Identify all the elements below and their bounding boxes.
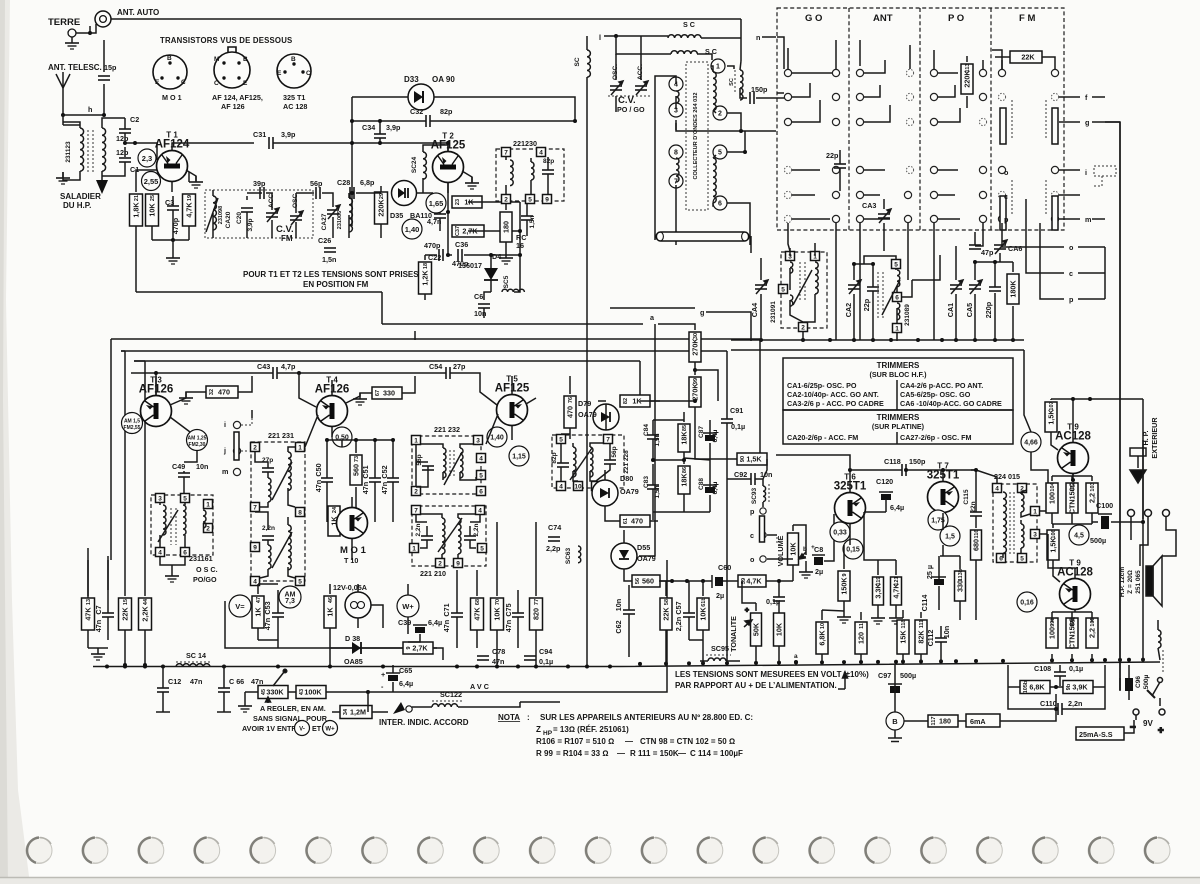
svg-text:6,4µ: 6,4µ bbox=[890, 503, 904, 512]
osc transformer 231161 dashed box bbox=[151, 495, 213, 555]
svg-text:9b: 9b bbox=[1066, 683, 1072, 690]
svg-text:R 99: R 99 bbox=[536, 749, 553, 758]
ground 231161 bbox=[165, 570, 179, 582]
svg-text:1: 1 bbox=[412, 546, 416, 553]
capacitor C84 bbox=[647, 435, 659, 439]
pin 1 bbox=[410, 544, 419, 553]
capacitor C2 bbox=[119, 129, 131, 133]
svg-text:C32: C32 bbox=[410, 107, 423, 116]
svg-text:E: E bbox=[155, 79, 160, 86]
node 4 bbox=[669, 77, 683, 91]
wire ladder bbox=[136, 172, 189, 292]
wire cd bottom bbox=[676, 185, 750, 245]
coil SC antenna bbox=[587, 50, 590, 77]
svg-text:B: B bbox=[291, 56, 296, 63]
wire battery bbox=[1136, 698, 1160, 720]
pin 5 bbox=[296, 577, 305, 586]
ground t4 shield bbox=[353, 393, 367, 405]
svg-text:C53: C53 bbox=[263, 601, 272, 614]
wire c8 left bbox=[793, 525, 806, 566]
node 1,15 bbox=[509, 446, 529, 466]
osc coil 231089 dashed bbox=[878, 272, 883, 318]
svg-text:c: c bbox=[1004, 192, 1008, 201]
svg-text:C50: C50 bbox=[314, 463, 323, 476]
svg-text:18K: 18K bbox=[680, 473, 689, 487]
detector frame bbox=[225, 331, 437, 648]
coil 231091 a2 bbox=[790, 295, 793, 306]
svg-text:61: 61 bbox=[623, 518, 629, 524]
svg-text:SC5: SC5 bbox=[503, 275, 510, 288]
svg-text:119: 119 bbox=[876, 577, 882, 586]
diode D55 bbox=[611, 543, 637, 569]
svg-text:j: j bbox=[223, 446, 226, 455]
ground t3 shield bbox=[179, 392, 193, 404]
wire mo1 bbox=[351, 497, 353, 560]
resistor 1,8K bbox=[130, 194, 143, 226]
svg-text:ANT. AUTO: ANT. AUTO bbox=[117, 8, 159, 17]
svg-text:470p: 470p bbox=[424, 241, 441, 250]
svg-text:CA5: CA5 bbox=[965, 303, 974, 317]
wire 68k 39k bbox=[1008, 665, 1105, 687]
wire t9b base bbox=[1048, 524, 1075, 582]
svg-text:56p: 56p bbox=[416, 454, 423, 465]
node 1,40 bbox=[487, 427, 507, 447]
diode D38 OA85 bbox=[352, 642, 361, 654]
pin 4 bbox=[557, 482, 566, 491]
wire c1 bbox=[102, 162, 125, 176]
svg-text:116: 116 bbox=[974, 530, 980, 539]
svg-text:—: — bbox=[617, 749, 625, 758]
wire 224015 bbox=[1021, 490, 1030, 553]
resistor 10K bbox=[697, 597, 709, 630]
svg-text:9: 9 bbox=[456, 561, 460, 568]
switch dashes bbox=[241, 418, 252, 451]
svg-text:AC 128: AC 128 bbox=[283, 102, 307, 111]
svg-text:10K: 10K bbox=[148, 203, 157, 217]
svg-text:a: a bbox=[794, 653, 798, 660]
svg-text:3,9K: 3,9K bbox=[1072, 683, 1088, 692]
svg-text:22p: 22p bbox=[862, 298, 871, 311]
ferrite rod antenna bbox=[656, 232, 749, 241]
trimmer CA3 bbox=[878, 209, 891, 223]
svg-text:6,4µ: 6,4µ bbox=[712, 429, 719, 442]
svg-text:11: 11 bbox=[859, 623, 865, 629]
svg-text:97b: 97b bbox=[1070, 617, 1076, 627]
svg-text:4,66: 4,66 bbox=[1024, 440, 1038, 447]
coil 221210 a bbox=[442, 518, 445, 554]
svg-text:1: 1 bbox=[414, 438, 418, 445]
svg-text:CA4-2/6 p-ACC. PO ANT.: CA4-2/6 p-ACC. PO ANT. bbox=[900, 381, 983, 390]
svg-text:12V-0,05A: 12V-0,05A bbox=[333, 583, 367, 592]
pin 9 bbox=[543, 195, 552, 204]
coil 221231 c bbox=[268, 545, 271, 569]
wire cd internal bbox=[676, 66, 716, 206]
pin 6 bbox=[893, 293, 902, 302]
wire d35 bbox=[356, 186, 392, 238]
svg-text:6: 6 bbox=[183, 550, 187, 557]
svg-text:47n: 47n bbox=[492, 657, 504, 666]
pin 4 bbox=[251, 577, 260, 586]
svg-text:OA79: OA79 bbox=[578, 410, 597, 419]
svg-text:C8: C8 bbox=[814, 545, 823, 554]
trim arrow 231089 bbox=[882, 280, 900, 315]
svg-text:C60: C60 bbox=[718, 563, 731, 572]
svg-text:C: C bbox=[306, 70, 311, 77]
svg-text:C: C bbox=[181, 79, 186, 86]
ground left bbox=[91, 648, 105, 660]
svg-text:2µ: 2µ bbox=[815, 567, 823, 576]
coil 221228 a bbox=[573, 447, 576, 477]
svg-text:1: 1 bbox=[1033, 509, 1037, 516]
transistor AF124 bbox=[157, 151, 188, 182]
arrow saladier bbox=[96, 180, 108, 194]
resistor 18K bbox=[678, 466, 690, 494]
capacitor C52 bbox=[387, 478, 399, 482]
resistor 470 bbox=[206, 386, 238, 398]
svg-text:102: 102 bbox=[1070, 482, 1076, 491]
node am fm t3b bbox=[187, 430, 208, 451]
trimmer CA6 bbox=[994, 240, 1007, 254]
node 5 bbox=[713, 145, 727, 159]
svg-text:V=: V= bbox=[235, 602, 245, 611]
svg-text:D55: D55 bbox=[637, 543, 650, 552]
svg-text:G O: G O bbox=[805, 13, 822, 24]
wire c31 to right bbox=[273, 142, 448, 144]
svg-text:46: 46 bbox=[328, 597, 334, 603]
svg-text:47p: 47p bbox=[981, 248, 994, 257]
svg-text:47n: 47n bbox=[442, 620, 451, 632]
svg-text:C71: C71 bbox=[442, 603, 451, 616]
coil SC top bbox=[668, 35, 701, 38]
svg-text:86: 86 bbox=[682, 467, 688, 473]
svg-text:25mA-S.S: 25mA-S.S bbox=[1079, 730, 1113, 739]
svg-text:C91: C91 bbox=[730, 406, 743, 415]
svg-text:g: g bbox=[700, 308, 704, 317]
wire volume bbox=[767, 525, 793, 581]
svg-text:SC95: SC95 bbox=[711, 644, 729, 653]
svg-text:C62: C62 bbox=[614, 620, 623, 633]
svg-text:32: 32 bbox=[209, 389, 215, 395]
core 231123 bbox=[88, 130, 93, 172]
ground ladder bbox=[166, 252, 180, 264]
pin 2 bbox=[412, 487, 421, 496]
transistor AC128 bbox=[1060, 579, 1091, 610]
resistor 10K bbox=[788, 533, 799, 565]
wire coil sec bbox=[102, 118, 125, 186]
svg-text:9: 9 bbox=[253, 545, 257, 552]
wire c43 to t4 bbox=[156, 373, 316, 407]
svg-text:m: m bbox=[222, 467, 228, 476]
svg-text:CA3: CA3 bbox=[862, 201, 876, 210]
capacitor C50 bbox=[321, 478, 333, 482]
svg-text:10K: 10K bbox=[789, 542, 798, 556]
coil antiparasite bbox=[1158, 630, 1161, 648]
trimmer CA20 arrow bbox=[206, 198, 218, 232]
capacitor C112 bbox=[935, 638, 947, 642]
svg-text:1,15: 1,15 bbox=[512, 454, 526, 461]
svg-text:C28: C28 bbox=[337, 178, 350, 187]
coil cd 5-6 bbox=[713, 158, 716, 203]
transistor AF126 bbox=[141, 396, 172, 427]
diode D4 136017 bbox=[484, 268, 498, 280]
wire letters bbox=[1059, 97, 1120, 219]
svg-text:29: 29 bbox=[379, 193, 385, 199]
transformer 221228 dashed box bbox=[552, 435, 624, 488]
svg-text:251 065: 251 065 bbox=[1135, 570, 1142, 594]
svg-text:S C: S C bbox=[683, 20, 695, 29]
svg-text:TRANSISTORS VUS DE DESSOUS: TRANSISTORS VUS DE DESSOUS bbox=[160, 36, 292, 45]
indicator switch bbox=[393, 702, 405, 714]
resistor 470 bbox=[620, 515, 650, 527]
resistor 10K bbox=[146, 194, 159, 226]
wire T1 collector bbox=[172, 143, 254, 150]
wire c96 bbox=[1128, 665, 1130, 700]
capacitor C118 150p bbox=[902, 464, 906, 476]
capacitor 0,1u vol bbox=[773, 597, 785, 601]
svg-text:47K: 47K bbox=[84, 607, 93, 621]
wire g bbox=[610, 308, 751, 341]
coil 231089 b bbox=[897, 303, 900, 320]
svg-text:0,16: 0,16 bbox=[1020, 600, 1034, 607]
capacitor C34 3,9p bbox=[374, 134, 386, 138]
wire b bbox=[895, 665, 928, 738]
svg-text:6: 6 bbox=[895, 295, 899, 302]
node 0,16 bbox=[1017, 592, 1037, 612]
volume dashes bbox=[767, 535, 777, 543]
wire t6 base link bbox=[776, 455, 850, 470]
capacitor C87 bbox=[703, 433, 717, 441]
pin 10 bbox=[574, 482, 583, 491]
svg-text:22K: 22K bbox=[121, 607, 130, 621]
svg-text:82p: 82p bbox=[440, 107, 453, 116]
svg-text::: : bbox=[527, 713, 530, 722]
node AM 7,3 bbox=[279, 586, 301, 608]
wire tonalite bbox=[742, 581, 779, 662]
wire fm con bbox=[1001, 60, 1003, 69]
trimmer CA2 bbox=[848, 280, 861, 294]
svg-text:C: C bbox=[214, 80, 219, 87]
wire t2 lower web bbox=[425, 183, 520, 318]
ground c8 bbox=[799, 566, 813, 578]
switch slider bbox=[234, 432, 239, 460]
svg-text:61b: 61b bbox=[701, 597, 707, 607]
trimmer ACC CV bbox=[635, 81, 648, 95]
svg-text:p: p bbox=[1069, 295, 1074, 304]
capacitor C54 27p bbox=[446, 367, 450, 379]
svg-text:D79: D79 bbox=[578, 399, 591, 408]
wire 224015 in bbox=[976, 470, 1003, 558]
svg-text:V-: V- bbox=[299, 726, 305, 732]
svg-text:10K: 10K bbox=[699, 607, 708, 621]
terminal TERRE bbox=[68, 29, 76, 37]
svg-text:44: 44 bbox=[143, 598, 149, 605]
svg-text:106: 106 bbox=[1051, 529, 1057, 538]
svg-text:5: 5 bbox=[718, 150, 722, 157]
diode D80 bbox=[592, 480, 618, 506]
svg-text:9: 9 bbox=[545, 197, 549, 204]
svg-text:47n: 47n bbox=[94, 620, 103, 632]
svg-text:2: 2 bbox=[504, 197, 508, 204]
wire l bbox=[604, 35, 668, 37]
svg-text:C96: C96 bbox=[1135, 676, 1142, 688]
wire d38 bbox=[330, 647, 398, 649]
svg-text:A REGLER, EN AM.: A REGLER, EN AM. bbox=[260, 704, 326, 713]
svg-text:E: E bbox=[243, 80, 248, 87]
wire t4 columns bbox=[327, 440, 393, 522]
svg-text:1,65: 1,65 bbox=[429, 199, 444, 208]
fuse 6mA bbox=[966, 714, 1000, 727]
svg-text:+: + bbox=[811, 544, 815, 551]
svg-text:1,2M: 1,2M bbox=[350, 708, 366, 717]
svg-text:CA20-2/6p - ACC. FM: CA20-2/6p - ACC. FM bbox=[787, 433, 858, 442]
svg-text:6,4µ: 6,4µ bbox=[428, 618, 442, 627]
coil SC small bbox=[740, 70, 743, 100]
svg-text:12p: 12p bbox=[116, 148, 129, 157]
trim arrow 221232 bbox=[444, 452, 462, 485]
svg-text:470: 470 bbox=[218, 388, 230, 397]
svg-text:6: 6 bbox=[718, 201, 722, 208]
svg-text:+: + bbox=[745, 607, 749, 614]
svg-text:231066: 231066 bbox=[337, 211, 343, 229]
trim arrow 221210 bbox=[438, 518, 462, 552]
wire t2 coll bbox=[447, 143, 449, 151]
wire osc rail bbox=[731, 340, 1024, 350]
wire 18k stack bbox=[653, 412, 710, 520]
svg-text:AM 1,25: AM 1,25 bbox=[188, 436, 207, 442]
wire sc122 bbox=[412, 702, 560, 707]
wire 1,2m bbox=[332, 692, 440, 712]
svg-text:D80: D80 bbox=[620, 474, 633, 483]
svg-text:CA2: CA2 bbox=[844, 303, 853, 317]
capacitor C71 bbox=[451, 613, 463, 617]
wire to ant auto bbox=[90, 24, 96, 33]
svg-text:i: i bbox=[1085, 168, 1087, 177]
capacitor C12 bbox=[157, 688, 169, 692]
wire 150p right bbox=[756, 97, 790, 99]
resistor 1K bbox=[324, 596, 336, 628]
resistor 100 bbox=[1046, 617, 1058, 648]
wire 330k bbox=[245, 692, 368, 700]
svg-text:0,1µ: 0,1µ bbox=[539, 657, 553, 666]
pin 6 bbox=[997, 554, 1006, 563]
capacitor C97 500u bbox=[888, 684, 902, 693]
capacitor C49 10n bbox=[178, 473, 190, 477]
fm slide resistor b bbox=[1052, 108, 1058, 144]
svg-text:h: h bbox=[88, 105, 92, 114]
svg-text:C110: C110 bbox=[1040, 699, 1057, 708]
trimmer OSC bbox=[290, 211, 303, 225]
svg-text:103: 103 bbox=[1090, 482, 1096, 491]
svg-text:7,3: 7,3 bbox=[285, 598, 295, 605]
svg-text:2,2p: 2,2p bbox=[546, 544, 561, 553]
capacitor 2,2n 210a bbox=[421, 536, 433, 540]
pin 1 bbox=[412, 436, 421, 445]
svg-text:22K: 22K bbox=[662, 607, 671, 621]
svg-text:22K: 22K bbox=[1021, 53, 1035, 62]
coil 231161 b bbox=[183, 505, 186, 535]
svg-text:DU H.P.: DU H.P. bbox=[63, 201, 91, 210]
coil 221228 b bbox=[590, 447, 593, 477]
resistor 47K bbox=[82, 598, 95, 630]
wire cd 2 bbox=[727, 113, 741, 131]
coil cd 1-2 bbox=[713, 72, 716, 110]
ground T1 bbox=[189, 176, 203, 188]
wire c92 bbox=[727, 459, 767, 479]
svg-text:C74: C74 bbox=[548, 523, 561, 532]
resistor 1,5K bbox=[1047, 529, 1059, 560]
svg-text:4,7p: 4,7p bbox=[281, 362, 296, 371]
svg-text:2,2n: 2,2n bbox=[473, 523, 480, 536]
svg-text:A V C: A V C bbox=[470, 682, 489, 691]
node 8 bbox=[669, 145, 683, 159]
svg-text:231089: 231089 bbox=[904, 304, 911, 326]
svg-text:270K: 270K bbox=[691, 338, 700, 356]
svg-text:OA79: OA79 bbox=[637, 554, 656, 563]
svg-text:o: o bbox=[1069, 243, 1074, 252]
svg-text:Z: Z bbox=[536, 725, 541, 734]
wire 22k c57 bbox=[666, 581, 703, 663]
capacitor C78 bbox=[477, 656, 489, 660]
svg-text:45: 45 bbox=[261, 689, 267, 695]
resistor 1K bbox=[252, 596, 264, 628]
svg-text:W+: W+ bbox=[402, 602, 414, 611]
resistor 1,5K bbox=[1045, 401, 1057, 432]
svg-text:180: 180 bbox=[939, 717, 951, 726]
pin 3 bbox=[474, 436, 483, 445]
wire ocp bbox=[1002, 199, 1105, 299]
resistor 100 bbox=[1046, 481, 1058, 513]
wire t9a base path bbox=[1024, 350, 1048, 511]
node 1 bbox=[711, 59, 725, 73]
svg-text:+: + bbox=[1158, 725, 1164, 736]
resistor 150K bbox=[838, 571, 850, 601]
wire left columns bbox=[88, 560, 145, 665]
resistor 2,2 bbox=[1086, 617, 1098, 648]
wire terre to ant bbox=[76, 26, 90, 33]
pot arrow tonalite bbox=[744, 607, 752, 627]
svg-text:D35: D35 bbox=[390, 211, 403, 220]
svg-text:C57: C57 bbox=[674, 601, 683, 614]
resistor 820 bbox=[530, 598, 543, 630]
svg-text:560: 560 bbox=[642, 577, 654, 586]
transformer 221210 dashed box bbox=[412, 506, 486, 566]
svg-text:ANT: ANT bbox=[873, 13, 893, 24]
svg-text:4: 4 bbox=[478, 508, 482, 515]
wire t7 res bbox=[939, 470, 976, 620]
coil 221231 d bbox=[288, 525, 291, 570]
wire a line bbox=[136, 292, 695, 330]
wire c66 bbox=[223, 665, 225, 712]
wire 220K sw bbox=[966, 56, 968, 108]
svg-text:CA2-10/40p- ACC. GO ANT.: CA2-10/40p- ACC. GO ANT. bbox=[787, 390, 879, 399]
wire t3 bbox=[156, 376, 252, 432]
capacitor C75 bbox=[512, 613, 524, 617]
svg-text:10: 10 bbox=[574, 484, 582, 491]
svg-text:2,55: 2,55 bbox=[144, 177, 159, 186]
svg-text:m: m bbox=[1085, 215, 1091, 224]
capacitor 220p bbox=[989, 287, 1001, 291]
transistor view AF124 bbox=[214, 47, 250, 88]
svg-text:27p: 27p bbox=[453, 362, 466, 371]
svg-text:C92: C92 bbox=[734, 470, 747, 479]
fm tuning dashed box bbox=[1094, 166, 1116, 186]
fm slide resistor d bbox=[1052, 196, 1058, 230]
svg-text:= 13Ω (RÉF. 251061): = 13Ω (RÉF. 251061) bbox=[553, 725, 629, 734]
capacitor 150p bbox=[750, 92, 754, 104]
wire speaker bbox=[1131, 517, 1176, 566]
svg-text:6: 6 bbox=[479, 489, 483, 496]
resistor 1K bbox=[328, 506, 340, 536]
